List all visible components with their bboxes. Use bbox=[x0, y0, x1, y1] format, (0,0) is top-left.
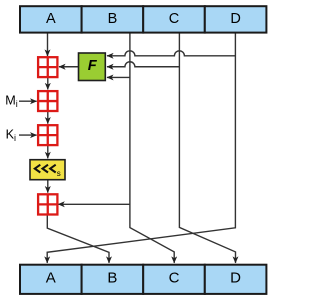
svg-text:F: F bbox=[88, 58, 98, 74]
wire: B into add4 bbox=[58, 203, 130, 205]
register box top A bbox=[20, 6, 82, 32]
wire: A column from box A down into add1 bbox=[47, 33, 49, 56]
svg-text:B: B bbox=[107, 270, 117, 287]
wire: rotate box to add4 bbox=[47, 180, 49, 193]
wire: B into F bottom input bbox=[107, 76, 130, 78]
function box F bbox=[79, 53, 106, 81]
register box bottom C bbox=[143, 265, 205, 294]
wire: Ki arrow into add3 bbox=[19, 134, 37, 136]
label chevron 3 bbox=[50, 165, 56, 173]
wire: D into F top input (hops over B and C verticals) bbox=[107, 51, 235, 56]
wire: B column vertical, then diagonal to bottom C bbox=[130, 33, 174, 263]
wire: Mi arrow into add2 bbox=[19, 100, 37, 102]
register box bottom D bbox=[205, 265, 267, 294]
label chevron 1 bbox=[35, 165, 41, 173]
svg-text:Ki: Ki bbox=[6, 127, 16, 143]
label chevron 2 bbox=[43, 165, 49, 173]
modular adder add4 bbox=[38, 194, 57, 214]
svg-text:C: C bbox=[169, 270, 180, 287]
svg-text:s: s bbox=[57, 169, 61, 178]
register box top B bbox=[82, 6, 144, 32]
svg-text:Mi: Mi bbox=[5, 93, 18, 109]
wire: D column vertical, then long diagonal to bottom A bbox=[47, 33, 235, 263]
wire: add4 output to bottom B bbox=[47, 215, 109, 263]
register box top C bbox=[143, 6, 205, 32]
wire: C into F middle input (hop over B vertical) bbox=[107, 62, 179, 67]
rotate-left box bbox=[30, 160, 65, 180]
modular adder add2 bbox=[38, 91, 57, 111]
modular adder add3 bbox=[38, 125, 57, 145]
svg-text:A: A bbox=[46, 270, 56, 287]
wire: add2 to add3 bbox=[47, 111, 49, 124]
register box top D bbox=[205, 6, 267, 32]
wire: F output into add1 bbox=[59, 66, 79, 68]
wire: add1 to add2 bbox=[47, 77, 49, 89]
svg-text:B: B bbox=[108, 11, 118, 27]
register box bottom A bbox=[20, 265, 82, 294]
svg-text:D: D bbox=[230, 270, 241, 287]
register box bottom B bbox=[82, 265, 144, 294]
wire: add3 to rotate box bbox=[47, 145, 49, 158]
svg-text:C: C bbox=[169, 11, 179, 27]
wire: C column vertical, then diagonal to bottom D bbox=[179, 33, 235, 263]
modular adder add1 bbox=[38, 57, 57, 77]
svg-text:A: A bbox=[46, 11, 56, 27]
svg-text:D: D bbox=[230, 11, 240, 27]
